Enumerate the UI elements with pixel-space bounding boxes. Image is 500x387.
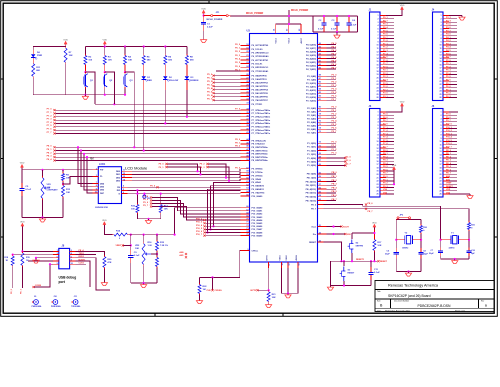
svg-text:20: 20 <box>440 174 442 176</box>
J6 pin 12 <box>443 147 449 149</box>
J4 pin 4 <box>443 24 449 26</box>
svg-text:SKP/PB: SKP/PB <box>356 245 364 247</box>
svg-text:P1_2(D2): P1_2(D2) <box>307 150 316 152</box>
svg-text:P5_5/A13/RTP05: P5_5/A13/RTP05 <box>252 92 269 95</box>
wires P9_0 P9_1 corners <box>168 164 198 171</box>
svg-text:P10_3: P10_3 <box>446 133 453 135</box>
svg-text:P9_7: P9_7 <box>143 205 149 207</box>
J6 pin 15 <box>443 157 449 159</box>
svg-text:P2_7(A7): P2_7(A7) <box>307 132 316 135</box>
svg-text:13: 13 <box>123 176 125 178</box>
svg-text:6: 6 <box>71 256 72 258</box>
svg-text:26: 26 <box>440 97 442 99</box>
svg-text:1: 1 <box>441 112 442 114</box>
svg-text:Date:: Date: <box>377 309 382 312</box>
svg-text:11: 11 <box>440 48 442 50</box>
capacitor C2 0.1uF <box>323 16 325 23</box>
svg-text:21: 21 <box>377 177 379 179</box>
J1 pin 13 <box>380 54 386 56</box>
switch S3 reset <box>343 261 345 266</box>
U3 pin P9_4 <box>241 181 250 183</box>
LCD right control pins <box>122 186 128 188</box>
svg-text:RW: RW <box>117 190 120 192</box>
U3 pin P5_5 <box>214 92 241 94</box>
U3 pin P4_4 <box>318 58 327 60</box>
svg-text:PWR/SSBL: PWR/SSBL <box>51 306 62 308</box>
svg-text:P6_2/RXD0/SCL0: P6_2/RXD0/SCL0 <box>252 53 270 55</box>
ground decoupling caps <box>336 34 338 36</box>
svg-text:7: 7 <box>378 131 379 133</box>
svg-text:2.2uF: 2.2uF <box>207 26 213 28</box>
svg-text:MCLK_POWER: MCLK_POWER <box>291 9 309 12</box>
frame zone tick top <box>208 1 210 4</box>
svg-text:P4_0(A16): P4_0(A16) <box>306 43 316 46</box>
svg-text:12: 12 <box>440 148 442 150</box>
svg-text:LCD Module: LCD Module <box>125 166 148 171</box>
U3 pin P7_7 <box>241 132 250 134</box>
svg-text:7: 7 <box>57 260 58 262</box>
svg-text:9: 9 <box>378 41 379 43</box>
svg-text:56: 56 <box>319 188 321 190</box>
power symbol VDD LED rail 1 <box>65 44 67 47</box>
svg-text:P9_5/ANEX0: P9_5/ANEX0 <box>252 185 265 188</box>
svg-text:14: 14 <box>440 57 442 60</box>
J3 pin 10 <box>380 141 386 143</box>
svg-text:12: 12 <box>377 148 379 150</box>
svg-text:26: 26 <box>440 194 442 196</box>
svg-text:10K: 10K <box>108 59 112 61</box>
resistor R11 680 <box>32 62 34 64</box>
J4 pin 15 <box>443 60 449 62</box>
junction VDD C1 <box>203 14 205 16</box>
wire LED rail 1 <box>33 46 65 48</box>
J1 pin 11 <box>380 47 386 49</box>
J6 pin 10 <box>443 141 449 143</box>
wire net P8_1 <box>56 150 241 152</box>
svg-text:85: 85 <box>319 85 321 87</box>
J1 pin 20 <box>380 77 386 79</box>
svg-text:P3_2: P3_2 <box>332 82 338 84</box>
resistor R13 10K <box>62 184 64 186</box>
svg-text:P7_1/TA1out/TA1in: P7_1/TA1out/TA1in <box>252 112 271 115</box>
resistor R22 1M pulldown <box>199 277 201 283</box>
wire J8 row5 to COM label <box>34 264 51 287</box>
svg-text:P4_5: P4_5 <box>332 59 338 62</box>
svg-text:16: 16 <box>377 161 379 163</box>
J6 pin 13 <box>443 150 449 152</box>
svg-text:14: 14 <box>377 57 379 60</box>
svg-text:18: 18 <box>377 168 379 170</box>
svg-text:10: 10 <box>95 192 97 194</box>
svg-text:14: 14 <box>440 153 442 156</box>
net label COM0 <box>32 286 34 288</box>
wire R20 down <box>103 269 105 281</box>
resistor R4 10K <box>124 47 126 55</box>
wire Q2 tap loop <box>105 72 115 104</box>
power symbol VDD LED rail 2 <box>104 44 106 47</box>
U3 pin P10_8 <box>241 232 250 234</box>
power symbol VDD contrast <box>21 167 23 170</box>
svg-text:P8_1: P8_1 <box>235 142 241 144</box>
svg-text:PB_7: PB_7 <box>332 199 338 201</box>
U3 pin P5_6 <box>214 96 241 98</box>
svg-text:7: 7 <box>441 35 442 37</box>
svg-text:P2_6(A6): P2_6(A6) <box>307 128 316 131</box>
U3 bottom pin BYTE <box>268 262 270 268</box>
ground below C1 <box>203 38 205 40</box>
resistor R18 pullup <box>12 254 14 256</box>
wire caps to ground <box>336 32 338 34</box>
J4 pin 20 <box>443 77 449 79</box>
wire wiper to LCD PL <box>63 176 98 184</box>
resistor R17 10K <box>373 238 375 240</box>
svg-text:60: 60 <box>246 178 248 180</box>
U3 pin P4_7 <box>318 68 327 70</box>
svg-text:P8_2/INT0/TB0in: P8_2/INT0/TB0in <box>252 147 269 149</box>
svg-text:62: 62 <box>246 184 248 186</box>
svg-text:P7_2: P7_2 <box>47 115 53 117</box>
J3 pin 20 <box>380 173 386 175</box>
LCD right data pins DB0-DB3 <box>122 170 133 172</box>
J6 pin 14 <box>443 154 449 156</box>
U3 top power pin AVCC <box>300 24 302 34</box>
svg-text:P9_3/DA0: P9_3/DA0 <box>252 178 262 181</box>
svg-text:32: 32 <box>246 95 248 97</box>
svg-text:26: 26 <box>246 74 248 76</box>
U3 pin P2_3 <box>318 118 327 120</box>
U3 pin P4_3 <box>318 54 327 56</box>
junction Q1 collector tap <box>84 66 86 72</box>
svg-text:28: 28 <box>246 81 248 83</box>
svg-text:P4_2: P4_2 <box>332 49 338 52</box>
U3 pin P10_2 <box>241 213 250 215</box>
J3 pin 13 <box>380 150 386 152</box>
svg-text:P10_9/AN9: P10_9/AN9 <box>252 234 264 237</box>
U3 pin P3_3 <box>318 86 327 88</box>
wire J6 pin26 to ground <box>449 193 470 195</box>
svg-text:10: 10 <box>440 141 442 143</box>
svg-text:P3_4: P3_4 <box>332 88 338 91</box>
svg-text:9: 9 <box>57 263 58 265</box>
svg-text:P3_3(A11): P3_3(A11) <box>306 86 316 89</box>
resistor R6 680 <box>164 47 166 55</box>
ground below R21 <box>268 303 270 305</box>
svg-text:67: 67 <box>246 209 248 211</box>
transistor Q2 <box>104 72 106 74</box>
wire trunk vertical <box>208 189 241 232</box>
J3 pin 6 <box>380 127 386 129</box>
svg-text:10K: 10K <box>164 208 168 210</box>
net label RESET <box>377 260 379 262</box>
power symbol VDD USB pullup <box>21 226 23 229</box>
svg-text:12: 12 <box>123 173 125 175</box>
wire Q2 emitter to rail <box>104 89 106 95</box>
svg-text:77: 77 <box>319 117 321 119</box>
svg-text:PE_6: PE_6 <box>368 203 374 205</box>
svg-text:9: 9 <box>441 41 442 43</box>
svg-text:P9_1/TB1in: P9_1/TB1in <box>252 172 264 174</box>
svg-text:16: 16 <box>377 64 379 66</box>
wire VSS join <box>281 292 298 294</box>
U3 pin P1_0 <box>318 142 327 144</box>
U3 pin RESET wire <box>318 241 324 243</box>
svg-text:0.1uF: 0.1uF <box>374 272 380 274</box>
svg-text:86: 86 <box>319 82 321 84</box>
svg-text:P5_2: P5_2 <box>207 81 213 83</box>
wire net P8_3 <box>56 156 241 158</box>
svg-text:P7_0/TA0out/TA0in: P7_0/TA0out/TA0in <box>252 109 271 112</box>
svg-text:P9_6: P9_6 <box>143 202 149 204</box>
wire net P7_5 <box>56 126 241 128</box>
svg-text:VCC2: VCC2 <box>289 37 291 43</box>
svg-text:COM0: COM0 <box>35 285 42 287</box>
svg-text:63: 63 <box>246 188 248 190</box>
svg-text:P6_5: P6_5 <box>235 62 241 64</box>
svg-text:LCD1: LCD1 <box>99 163 106 166</box>
J3 pin 15 <box>380 157 386 159</box>
svg-text:23: 23 <box>319 233 321 235</box>
frame zone tick left <box>1 158 4 160</box>
svg-text:0.1uF: 0.1uF <box>331 29 337 31</box>
capacitor C5 0.1uF <box>21 170 23 183</box>
svg-text:4: 4 <box>441 121 442 124</box>
connector J1 body <box>370 12 381 101</box>
svg-text:P4_4(A20): P4_4(A20) <box>306 57 316 60</box>
svg-text:2: 2 <box>441 115 442 117</box>
svg-text:CONTRAST: CONTRAST <box>47 189 59 192</box>
svg-text:PWR/USBL: PWR/USBL <box>32 306 43 308</box>
svg-text:92: 92 <box>319 57 321 59</box>
svg-text:P6_3/TXD0/SDA0: P6_3/TXD0/SDA0 <box>252 55 270 58</box>
svg-text:20: 20 <box>377 174 379 176</box>
svg-text:RESET: RESET <box>309 242 317 244</box>
U3 bottom pin AVSS <box>297 262 299 268</box>
svg-text:24: 24 <box>377 90 379 93</box>
U3 pin P1_2 <box>318 150 327 152</box>
svg-text:17: 17 <box>377 68 379 70</box>
svg-text:P3_6(A14): P3_6(A14) <box>306 96 316 99</box>
svg-text:P5_6/A14/RTP06: P5_6/A14/RTP06 <box>252 95 269 98</box>
ground AN pot <box>143 283 145 285</box>
svg-text:P2_5(A5): P2_5(A5) <box>307 125 316 128</box>
U3 pin P10_9 <box>241 235 250 237</box>
svg-text:36: 36 <box>246 115 248 117</box>
ground Y2 <box>408 272 410 274</box>
ground Y1 <box>454 259 456 261</box>
svg-text:PB_6: PB_6 <box>332 195 338 197</box>
J4 pin 26 <box>443 97 449 99</box>
svg-text:P5_3: P5_3 <box>207 85 213 87</box>
svg-text:87: 87 <box>319 78 321 80</box>
svg-text:P10_0: P10_0 <box>446 124 453 126</box>
svg-text:2: 2 <box>378 115 379 117</box>
svg-text:P8_0/TA4out/U: P8_0/TA4out/U <box>252 139 267 142</box>
J3 pin 26 <box>380 193 386 195</box>
U3 pin P5_4 <box>214 89 241 91</box>
J4 pin 12 <box>443 51 449 53</box>
J6 pin 23 <box>443 183 449 185</box>
J4 pin 7 <box>443 34 449 36</box>
U3 pin P6_2 <box>241 52 250 54</box>
svg-text:18: 18 <box>377 71 379 73</box>
U3 pin P10_6 <box>241 225 250 227</box>
svg-text:4: 4 <box>378 24 379 27</box>
U3 pin P5_3 <box>214 85 241 87</box>
svg-text:P2_7: P2_7 <box>332 131 338 133</box>
J8 left pins <box>53 250 59 252</box>
wire U3 power bracket <box>288 16 290 24</box>
power symbol VDD reset <box>373 227 375 230</box>
svg-text:30pF: 30pF <box>423 253 428 255</box>
wire MCLK_POWER label jog <box>288 10 290 16</box>
svg-text:6: 6 <box>123 192 124 194</box>
svg-text:VDD: VDD <box>102 39 107 41</box>
svg-text:P3_1: P3_1 <box>332 78 338 80</box>
J6 pin 9 <box>443 137 449 139</box>
wire net P8_2 <box>56 153 241 155</box>
svg-text:37: 37 <box>246 119 248 121</box>
wire net P7_7 <box>56 132 241 134</box>
net label PE_6 <box>365 204 367 206</box>
svg-text:1: 1 <box>378 112 379 114</box>
svg-text:P4_0: P4_0 <box>332 42 338 45</box>
svg-text:3: 3 <box>57 253 58 255</box>
svg-text:23: 23 <box>377 87 379 89</box>
svg-text:Wednesday, August 18, 2004: Wednesday, August 18, 2004 <box>385 309 410 312</box>
U3 pin PB_4 <box>318 188 327 190</box>
svg-text:P5_5: P5_5 <box>207 92 213 94</box>
wire J8 pin2 to R20 <box>76 251 105 255</box>
svg-text:P3_4(A12): P3_4(A12) <box>306 89 316 92</box>
svg-text:VDD: VDD <box>102 220 107 222</box>
U3 pin P6_0 <box>241 44 250 46</box>
J8 right pins <box>70 250 76 252</box>
svg-text:TXD/USBL: TXD/USBL <box>71 306 81 308</box>
svg-text:8: 8 <box>96 185 97 187</box>
J1 pin 12 <box>380 51 386 53</box>
svg-text:P3_2(A10): P3_2(A10) <box>306 82 316 85</box>
svg-text:10: 10 <box>440 45 442 47</box>
ground reset circuit <box>330 286 332 288</box>
svg-text:P2_5: P2_5 <box>332 124 338 126</box>
svg-text:2: 2 <box>96 168 97 170</box>
J1 pin 9 <box>380 41 386 43</box>
svg-text:9: 9 <box>441 138 442 140</box>
svg-text:0.1uF: 0.1uF <box>25 189 31 191</box>
svg-text:73: 73 <box>319 131 321 133</box>
U3 pin P10_4 <box>241 219 250 221</box>
svg-text:P10_5: P10_5 <box>446 140 453 142</box>
svg-text:0.1uF: 0.1uF <box>351 24 357 26</box>
svg-text:P1_0: P1_0 <box>332 142 338 144</box>
J3 pin 14 <box>380 154 386 156</box>
svg-text:P5_1/A9/RTP01: P5_1/A9/RTP01 <box>252 78 268 81</box>
svg-text:MCLK_POWER: MCLK_POWER <box>246 12 264 15</box>
svg-text:5: 5 <box>441 28 442 30</box>
junction Q2 collector tap <box>104 66 106 72</box>
J3 pin 4 <box>380 121 386 123</box>
wire transistor tap rail to U3 <box>95 103 241 105</box>
capacitor C6 30pF <box>395 248 397 252</box>
svg-text:P2_3(A3): P2_3(A3) <box>307 118 316 121</box>
svg-text:P8_7: P8_7 <box>311 209 317 211</box>
svg-text:NM: NM <box>90 159 94 161</box>
svg-text:P6_4/CTS1/RTS1: P6_4/CTS1/RTS1 <box>252 59 269 62</box>
J3 pin 8 <box>380 134 386 136</box>
svg-text:P8_5/INT3/TB3in: P8_5/INT3/TB3in <box>252 157 269 159</box>
J6 pin 22 <box>443 180 449 182</box>
svg-text:39: 39 <box>246 125 248 127</box>
svg-text:68: 68 <box>319 157 321 159</box>
U3 pin P3_2 <box>318 82 327 84</box>
wire Q3 emitter to rail <box>124 89 126 95</box>
svg-text:22: 22 <box>377 84 379 86</box>
svg-text:VDD: VDD <box>201 8 206 10</box>
svg-text:RESET: RESET <box>348 272 355 274</box>
U3 pin P3_4 <box>318 89 327 91</box>
frame zone tick right <box>494 158 497 160</box>
svg-text:P10_2: P10_2 <box>196 219 203 221</box>
svg-text:P10_7: P10_7 <box>446 147 453 149</box>
J3 pin 22 <box>380 180 386 182</box>
svg-text:22: 22 <box>377 181 379 183</box>
wire P9_5 staircase <box>152 201 241 214</box>
J3 pin 19 <box>380 170 386 172</box>
svg-text:P8_6/INT4/TB4in: P8_6/INT4/TB4in <box>252 159 269 162</box>
J4 pin 8 <box>443 38 449 40</box>
svg-text:VDD: VDD <box>20 221 25 223</box>
svg-text:P4_5(A21): P4_5(A21) <box>306 61 316 64</box>
svg-text:P7_5/TA5out/TA5in: P7_5/TA5out/TA5in <box>252 126 271 129</box>
U3 pin P2_1 <box>318 111 327 113</box>
svg-text:P10_5: P10_5 <box>196 228 203 230</box>
power symbol VDD J1 <box>401 9 403 12</box>
svg-text:P4_3: P4_3 <box>332 52 338 55</box>
svg-text:10: 10 <box>377 141 379 143</box>
svg-text:1: 1 <box>441 15 442 17</box>
svg-text:30pF: 30pF <box>385 253 390 255</box>
J6 pin 24 <box>443 186 449 188</box>
svg-text:16MHz: 16MHz <box>402 248 408 250</box>
wire J3 pin24 to VSS <box>393 172 395 184</box>
svg-text:P7_0: P7_0 <box>235 109 241 111</box>
wire LED taps <box>94 95 96 105</box>
wire VDD to R14 <box>104 227 112 235</box>
svg-text:P9_5: P9_5 <box>150 185 156 187</box>
U3 pin P5_7 <box>214 99 241 101</box>
svg-text:P1_5(D5): P1_5(D5) <box>307 162 316 164</box>
svg-text:P10_0/AN0: P10_0/AN0 <box>252 207 264 210</box>
svg-text:48: 48 <box>246 151 248 154</box>
J4 pin 23 <box>443 87 449 89</box>
J6 pin 7 <box>443 131 449 133</box>
switch S2 pullup <box>351 233 353 239</box>
svg-text:32KHz: 32KHz <box>449 248 455 250</box>
svg-text:VSS: VSS <box>383 192 388 194</box>
svg-text:25: 25 <box>440 94 442 96</box>
svg-text:50: 50 <box>246 159 248 161</box>
svg-text:P3_0: P3_0 <box>332 75 338 77</box>
wires LCD DB from P8 bus <box>78 147 92 183</box>
U3 pin PB_6 <box>318 196 327 198</box>
svg-text:P2_0: P2_0 <box>332 107 338 109</box>
wire decoupling cap rail bottom <box>313 31 358 33</box>
svg-text:P10_1: P10_1 <box>446 127 453 129</box>
frame zone tick bottom <box>282 313 284 316</box>
svg-text:26: 26 <box>377 97 379 99</box>
wires J8 right extend <box>76 254 96 256</box>
U3 pin PB_7 <box>318 200 327 202</box>
